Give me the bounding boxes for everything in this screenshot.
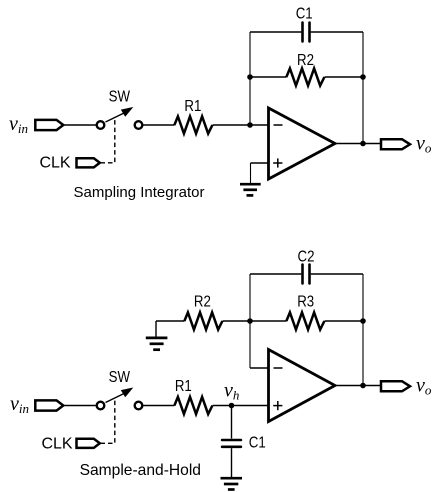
svg-text:Sample-and-Hold: Sample-and-Hold	[80, 462, 201, 479]
svg-text:Sampling Integrator: Sampling Integrator	[74, 184, 205, 201]
svg-text:CLK: CLK	[41, 435, 72, 452]
svg-text:C2: C2	[298, 248, 315, 265]
svg-text:SW: SW	[109, 369, 130, 386]
svg-text:R2: R2	[297, 52, 314, 69]
svg-text:R3: R3	[297, 294, 314, 311]
svg-text:SW: SW	[109, 88, 130, 105]
svg-text:C1: C1	[249, 434, 266, 451]
svg-text:CLK: CLK	[39, 154, 70, 171]
svg-text:R1: R1	[175, 378, 192, 395]
svg-text:R1: R1	[184, 98, 201, 115]
svg-text:R2: R2	[194, 294, 211, 311]
svg-text:C1: C1	[296, 5, 313, 22]
